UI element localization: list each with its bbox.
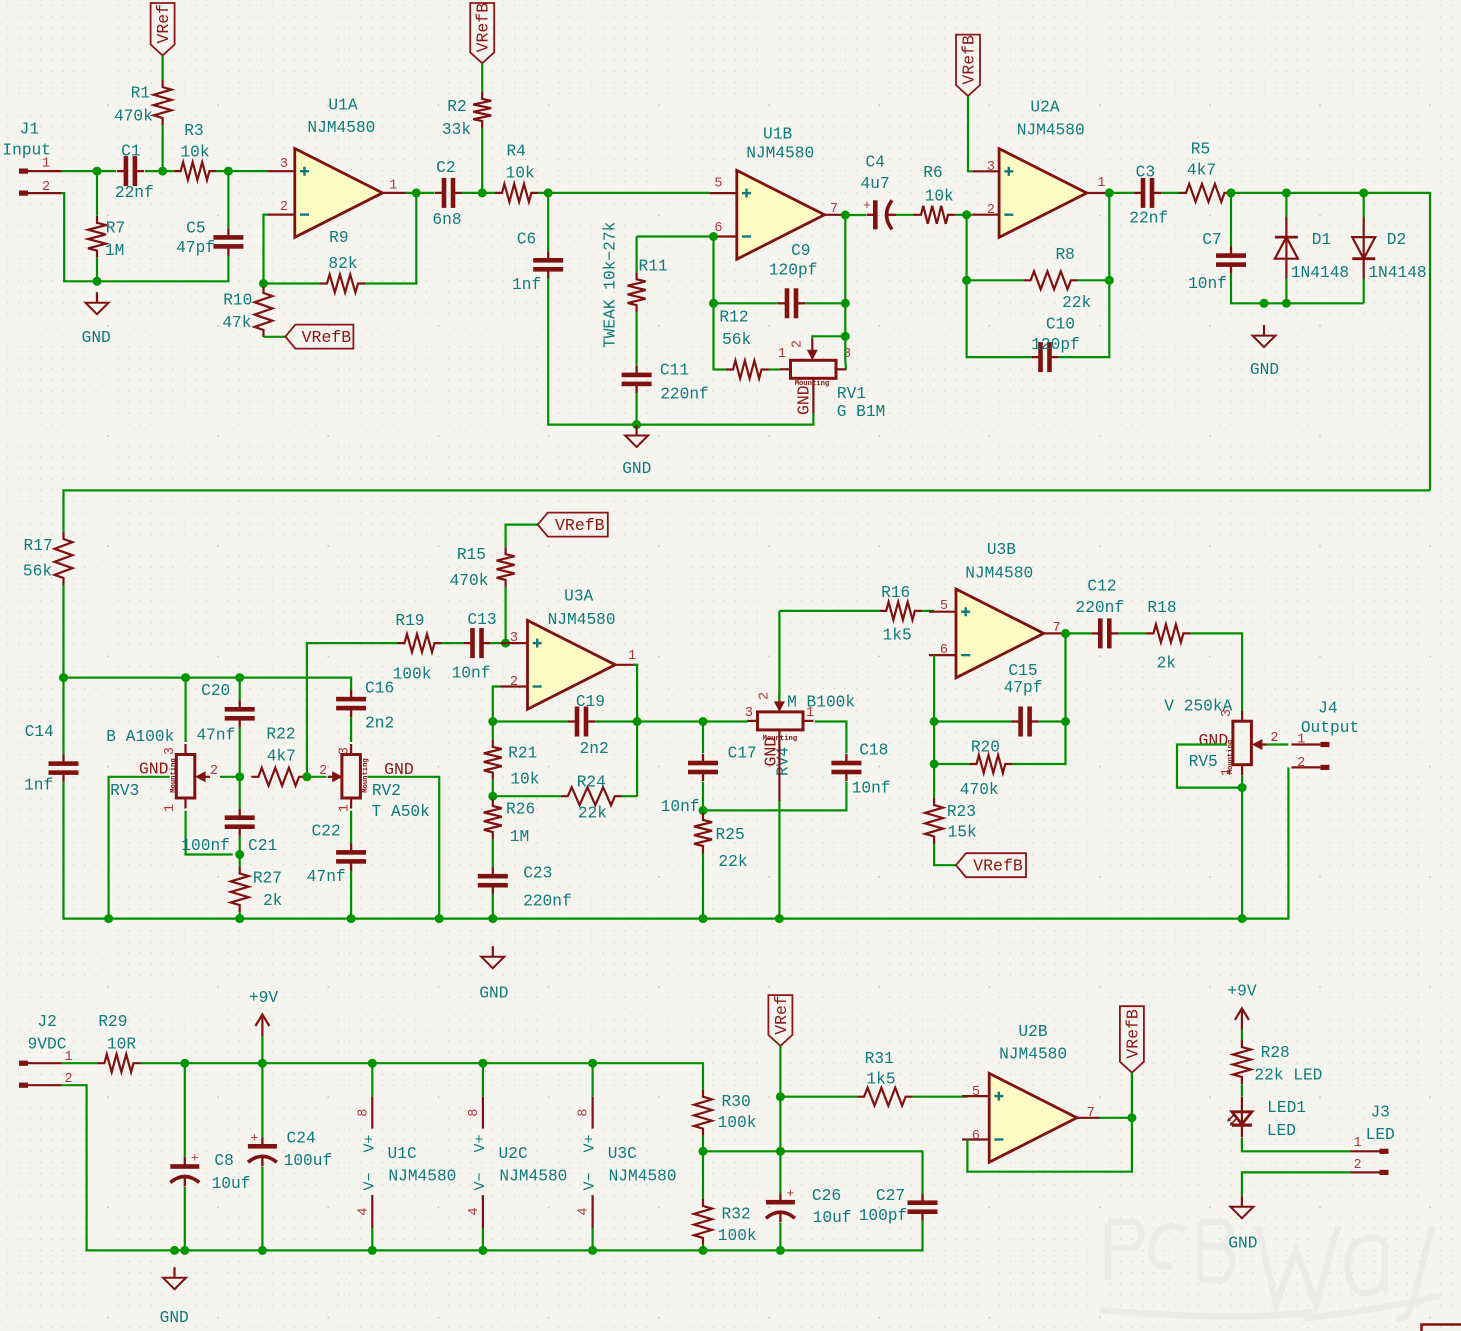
svg-text:4: 4: [356, 1207, 371, 1215]
wire mounting RV1: [812, 378, 814, 413]
svg-text:NJM4580: NJM4580: [548, 611, 616, 629]
capacitor C12: [1076, 578, 1125, 649]
svg-text:C10: C10: [1046, 315, 1075, 333]
svg-text:2: 2: [758, 692, 773, 700]
svg-text:VRefB: VRefB: [302, 328, 352, 347]
svg-text:47pf: 47pf: [1004, 679, 1043, 697]
capacitor C2: [432, 159, 462, 229]
node junction: [1061, 717, 1070, 726]
capacitor C22: [307, 823, 366, 886]
node junction: [93, 167, 102, 286]
resistor R15: [450, 546, 515, 590]
node junction: [235, 850, 244, 859]
svg-text:VRefB: VRefB: [555, 516, 605, 535]
wire mounting RV3: [109, 777, 170, 919]
node junction: [488, 717, 497, 726]
wire: [702, 810, 704, 918]
node junction: [709, 232, 718, 241]
svg-text:VRef: VRef: [154, 4, 173, 44]
svg-text:2k: 2k: [1157, 655, 1176, 673]
power +9V: [1227, 983, 1256, 1030]
resistor R10: [222, 286, 272, 337]
svg-text:R29: R29: [98, 1013, 127, 1031]
svg-text:V−: V−: [361, 1172, 378, 1190]
wire: [779, 1046, 781, 1097]
wire: [1190, 633, 1242, 710]
svg-text:R3: R3: [184, 122, 203, 140]
wire: [1059, 193, 1110, 357]
node junction: [302, 772, 311, 781]
connector J2: [19, 1013, 73, 1088]
svg-text:1: 1: [163, 804, 178, 812]
svg-text:R31: R31: [865, 1050, 894, 1068]
node junction: [841, 332, 850, 341]
svg-text:C22: C22: [312, 823, 341, 841]
resistor R1: [114, 80, 172, 126]
node junction: [841, 299, 850, 308]
op-amp U1A: [268, 97, 406, 238]
node junction: [501, 639, 510, 648]
node junction: [478, 188, 487, 197]
svg-text:R7: R7: [106, 220, 125, 238]
capacitor C6: [512, 231, 563, 295]
wire: [62, 585, 64, 755]
svg-text:C5: C5: [186, 220, 205, 238]
svg-text:5: 5: [940, 599, 948, 614]
svg-text:120pf: 120pf: [769, 262, 818, 280]
svg-text:4k7: 4k7: [267, 747, 296, 765]
wire: [913, 1096, 968, 1098]
wire: [216, 170, 268, 172]
svg-text:7: 7: [1087, 1106, 1095, 1121]
wire: [1267, 743, 1289, 745]
svg-text:R10: R10: [223, 292, 252, 310]
wire: [186, 811, 233, 855]
diode D1: [1275, 216, 1349, 282]
svg-text:R28: R28: [1261, 1044, 1290, 1062]
ground: [479, 946, 508, 1002]
wire: [1363, 193, 1365, 303]
wire: [1241, 1084, 1243, 1096]
op-amp power U1C: [356, 1097, 456, 1228]
svg-text:2: 2: [987, 203, 995, 218]
node junction: [776, 1092, 785, 1101]
svg-text:VRefB: VRefB: [474, 3, 493, 53]
capacitor C4: [861, 154, 896, 230]
svg-text:22k: 22k: [1062, 294, 1091, 312]
resistor R12: [719, 309, 768, 379]
svg-text:1: 1: [42, 156, 50, 171]
node junction: [170, 1246, 785, 1255]
node junction: [1105, 188, 1114, 284]
svg-text:6n8: 6n8: [432, 211, 461, 229]
op-amp U2A: [972, 98, 1110, 237]
svg-text:3: 3: [163, 747, 178, 755]
capacitor C27: [859, 1187, 938, 1225]
wire: [769, 368, 781, 370]
svg-text:56k: 56k: [722, 331, 751, 349]
wire: [493, 687, 501, 722]
svg-text:VRefB: VRefB: [973, 857, 1023, 876]
svg-text:1N4148: 1N4148: [1291, 264, 1349, 282]
node junction: [259, 188, 421, 288]
led LED1: [1227, 1097, 1306, 1140]
capacitor C5: [176, 220, 243, 257]
node junction: [181, 673, 244, 682]
svg-text:C17: C17: [728, 745, 757, 763]
svg-text:22k: 22k: [718, 853, 747, 871]
svg-text:R5: R5: [1191, 141, 1210, 159]
node junction: [632, 420, 641, 429]
capacitor C13: [452, 611, 497, 683]
wire: [350, 871, 352, 919]
resistor R3: [174, 122, 217, 180]
wire: [493, 720, 568, 722]
svg-text:3: 3: [338, 747, 353, 755]
svg-text:100pf: 100pf: [859, 1207, 908, 1225]
svg-text:C2: C2: [436, 159, 455, 177]
wire: [1231, 193, 1364, 303]
svg-text:J2: J2: [37, 1013, 56, 1031]
capacitor C21: [181, 809, 277, 856]
wire: [714, 237, 727, 370]
svg-text:C8: C8: [214, 1152, 233, 1170]
svg-text:GND: GND: [622, 460, 651, 478]
wire: [779, 610, 879, 612]
svg-text:1: 1: [778, 347, 786, 362]
op-amp U2B: [962, 1023, 1100, 1162]
node junction: [930, 717, 939, 726]
wire: [492, 722, 494, 797]
potentiometer RV1: [778, 338, 885, 421]
svg-text:9VDC: 9VDC: [28, 1035, 67, 1053]
svg-text:R9: R9: [329, 229, 348, 247]
svg-text:47nf: 47nf: [196, 726, 235, 744]
wire: [264, 215, 269, 284]
wire: [406, 192, 435, 194]
svg-text:4u7: 4u7: [861, 175, 890, 193]
svg-text:22k LED: 22k LED: [1254, 1066, 1322, 1084]
wire: [779, 1223, 781, 1251]
capacitor C26: [766, 1186, 852, 1227]
svg-text:C11: C11: [660, 362, 689, 380]
decorative watermark: [1100, 1222, 1440, 1319]
wire: [1109, 192, 1134, 194]
svg-text:47pf: 47pf: [176, 239, 215, 257]
capacitor C24: [248, 1130, 332, 1170]
wire: [1118, 632, 1146, 634]
svg-text:2k: 2k: [263, 892, 282, 910]
svg-text:C4: C4: [865, 154, 884, 172]
wire: [1285, 193, 1287, 303]
node junction: [488, 792, 497, 801]
wire: [481, 63, 483, 193]
svg-text:V 250kA: V 250kA: [1164, 698, 1232, 716]
op-amp power U2C: [467, 1097, 568, 1228]
svg-text:C15: C15: [1008, 662, 1037, 680]
svg-text:C7: C7: [1202, 231, 1221, 249]
svg-text:10nf: 10nf: [661, 798, 700, 816]
capacitor C19: [568, 693, 609, 758]
svg-text:D1: D1: [1312, 231, 1331, 249]
wire: [591, 1063, 593, 1250]
svg-text:U1A: U1A: [328, 97, 357, 115]
wire: [493, 795, 637, 797]
node junction: [699, 806, 708, 815]
wire: [967, 215, 1032, 357]
resistor R18: [1146, 599, 1190, 673]
svg-text:100k: 100k: [718, 1114, 757, 1132]
svg-text:RV3: RV3: [110, 782, 139, 800]
node junction: [1227, 188, 1369, 197]
svg-text:VRef: VRef: [772, 995, 791, 1035]
svg-text:V+: V+: [361, 1134, 378, 1152]
capacitor C23: [478, 865, 572, 911]
resistor R32: [694, 1199, 757, 1245]
svg-text:8: 8: [577, 1109, 592, 1117]
wire: [261, 1063, 263, 1250]
svg-text:U1B: U1B: [763, 126, 792, 144]
svg-text:U3C: U3C: [608, 1145, 637, 1163]
resistor R21: [484, 740, 540, 788]
wire: [896, 214, 914, 216]
node junction: [1127, 1113, 1136, 1122]
ground: [1250, 325, 1279, 379]
svg-text:R16: R16: [881, 584, 910, 602]
svg-text:120pf: 120pf: [1031, 336, 1080, 354]
net label VRefB: [956, 853, 1026, 877]
net label GND: [795, 385, 814, 415]
op-amp power U3C: [577, 1097, 677, 1228]
ground: [82, 292, 111, 347]
svg-text:82k: 82k: [328, 255, 357, 273]
wire: [239, 855, 241, 919]
svg-text:U2C: U2C: [499, 1145, 528, 1163]
power label VRefB: [1120, 1006, 1144, 1072]
op-amp U3B: [929, 541, 1067, 678]
svg-text:NJM4580: NJM4580: [499, 1168, 567, 1186]
svg-text:+: +: [191, 1151, 199, 1166]
svg-text:R18: R18: [1147, 599, 1176, 617]
svg-text:NJM4580: NJM4580: [999, 1046, 1067, 1064]
ground: [1228, 1196, 1257, 1252]
svg-text:R24: R24: [577, 774, 606, 792]
svg-text:C18: C18: [859, 741, 888, 759]
svg-text:5: 5: [714, 177, 722, 192]
power +9V: [249, 989, 278, 1036]
wire: [491, 642, 501, 644]
svg-text:1: 1: [1353, 1136, 1361, 1151]
net label GND: [1199, 731, 1229, 750]
wire mounting RV4: [778, 731, 780, 919]
svg-text:2: 2: [42, 180, 50, 195]
capacitor C8: [170, 1151, 250, 1194]
capacitor C1: [115, 143, 154, 202]
wire mounting RV2: [367, 777, 439, 919]
svg-text:220nf: 220nf: [1076, 599, 1125, 617]
svg-text:C13: C13: [467, 611, 496, 629]
svg-text:8: 8: [467, 1109, 482, 1117]
svg-text:2n2: 2n2: [580, 740, 609, 758]
wire: [1161, 192, 1179, 194]
wire: [635, 237, 637, 273]
wire: [1131, 1073, 1133, 1118]
resistor R5: [1179, 141, 1232, 202]
wire: [162, 56, 164, 172]
node junction: [104, 914, 1247, 923]
resistor R31: [857, 1050, 913, 1106]
svg-text:GND: GND: [82, 329, 111, 347]
svg-text:J4: J4: [1318, 700, 1337, 718]
svg-text:1k5: 1k5: [866, 1071, 895, 1089]
svg-text:M B100k: M B100k: [787, 694, 855, 712]
resistor R6: [914, 164, 955, 224]
node junction: [1238, 783, 1247, 792]
op-amp U1B: [710, 126, 848, 260]
svg-text:220nf: 220nf: [523, 892, 572, 910]
svg-text:C21: C21: [248, 837, 277, 855]
svg-text:7: 7: [830, 202, 838, 217]
svg-text:GND: GND: [1199, 731, 1229, 750]
svg-text:+: +: [863, 198, 871, 213]
svg-text:V+: V+: [472, 1134, 489, 1152]
label TWEAK: [602, 222, 620, 348]
wire: [61, 1062, 97, 1064]
svg-text:100nf: 100nf: [181, 837, 230, 855]
svg-text:R4: R4: [506, 143, 525, 161]
wire: [220, 776, 240, 778]
node junction: [235, 772, 244, 781]
wire: [702, 1151, 704, 1250]
svg-text:2: 2: [1297, 756, 1305, 771]
wire: [933, 655, 935, 721]
diode D2: [1352, 216, 1426, 282]
svg-text:VRefB: VRefB: [960, 35, 979, 85]
wire: [967, 1118, 1132, 1172]
svg-text:C27: C27: [876, 1187, 905, 1205]
svg-text:1nf: 1nf: [512, 276, 541, 294]
resistor R25: [694, 813, 748, 871]
svg-text:J1: J1: [20, 121, 39, 139]
wire: [264, 284, 286, 337]
svg-text:R20: R20: [971, 739, 1000, 757]
power label VRefB: [470, 3, 494, 63]
svg-text:5: 5: [972, 1085, 980, 1100]
svg-text:Output: Output: [1301, 719, 1359, 737]
wire: [967, 279, 1110, 281]
wire: [350, 717, 352, 742]
resistor R26: [484, 799, 535, 846]
svg-text:C26: C26: [812, 1187, 841, 1205]
wire: [492, 796, 494, 867]
resistor R4: [495, 143, 538, 202]
svg-text:+9V: +9V: [249, 989, 278, 1007]
connector J1: [2, 121, 61, 196]
wire: [714, 302, 778, 304]
wire: [703, 782, 846, 811]
svg-text:1N4148: 1N4148: [1368, 264, 1426, 282]
svg-text:2n2: 2n2: [365, 714, 394, 732]
svg-text:220nf: 220nf: [660, 385, 709, 403]
svg-text:10nf: 10nf: [452, 665, 491, 683]
net label VRefB: [538, 513, 608, 537]
wire: [548, 193, 813, 425]
svg-text:1M: 1M: [510, 828, 529, 846]
svg-text:GND: GND: [139, 760, 169, 779]
resistor R7: [88, 216, 125, 260]
svg-text:T A50k: T A50k: [372, 803, 430, 821]
node junction: [1061, 629, 1070, 638]
svg-text:NJM4580: NJM4580: [388, 1168, 456, 1186]
node junction: [180, 1059, 597, 1068]
wire: [482, 1063, 484, 1250]
wire: [239, 678, 241, 777]
svg-text:4: 4: [577, 1207, 592, 1215]
resistor R9: [320, 229, 365, 293]
wire: [703, 720, 748, 722]
wire: [64, 490, 1431, 532]
svg-text:2: 2: [319, 764, 327, 779]
potentiometer RV2: [319, 744, 430, 821]
capacitor C14: [24, 723, 78, 795]
svg-text:1M: 1M: [105, 242, 124, 260]
node junction: [1260, 299, 1291, 308]
wire: [1241, 1030, 1243, 1041]
svg-text:100uf: 100uf: [284, 1152, 333, 1170]
svg-text:7: 7: [1053, 621, 1061, 636]
svg-text:C24: C24: [287, 1130, 316, 1148]
resistor R22: [251, 726, 306, 786]
node junction: [59, 673, 68, 682]
svg-text:10nf: 10nf: [1188, 275, 1227, 293]
wire: [637, 235, 710, 237]
svg-text:VRefB: VRefB: [1123, 1009, 1142, 1059]
svg-text:3: 3: [987, 160, 995, 175]
wire: [848, 214, 867, 216]
svg-text:R6: R6: [923, 164, 942, 182]
wire: [61, 1085, 923, 1250]
svg-text:C9: C9: [791, 242, 810, 260]
wire: [306, 776, 327, 778]
svg-text:GND: GND: [795, 385, 814, 415]
svg-text:470k: 470k: [960, 781, 999, 799]
label RV4: [775, 747, 793, 776]
svg-text:C19: C19: [576, 693, 605, 711]
svg-text:GND: GND: [1250, 361, 1279, 379]
svg-text:6: 6: [972, 1129, 980, 1144]
wire: [805, 302, 845, 304]
wire: [595, 720, 637, 722]
wire: [812, 336, 845, 338]
svg-text:R1: R1: [131, 85, 150, 103]
wire: [96, 171, 98, 281]
svg-text:R8: R8: [1055, 246, 1074, 264]
wire: [184, 1063, 186, 1250]
resistor R8: [1024, 246, 1092, 312]
svg-text:6: 6: [940, 643, 948, 658]
resistor R19: [393, 612, 442, 684]
wire: [261, 1036, 263, 1063]
svg-text:2: 2: [280, 200, 288, 215]
resistor R28: [1233, 1040, 1323, 1084]
svg-text:R17: R17: [24, 537, 53, 555]
wire: [922, 610, 934, 612]
wire: [538, 192, 710, 194]
svg-text:10k: 10k: [925, 187, 954, 205]
wire: [185, 678, 187, 742]
ground: [622, 425, 651, 478]
svg-text:10k: 10k: [180, 143, 209, 161]
